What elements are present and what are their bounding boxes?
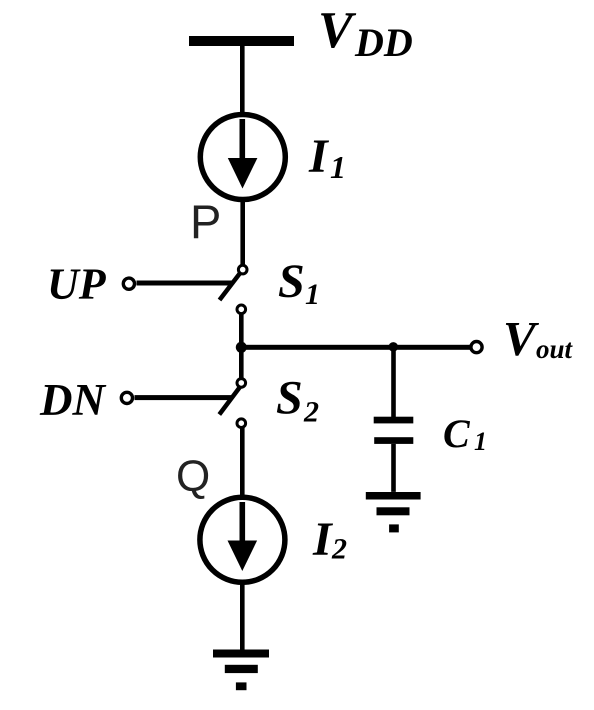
svg-text:Q: Q xyxy=(176,452,210,501)
ground (I2) xyxy=(213,650,269,691)
junction C1 tap xyxy=(389,342,399,352)
wire S2 to I2 xyxy=(240,428,245,496)
svg-text:2: 2 xyxy=(331,533,347,566)
svg-text:I: I xyxy=(312,513,334,566)
switch S1 xyxy=(220,265,248,313)
svg-text:V: V xyxy=(318,2,357,59)
junction node xyxy=(236,342,247,353)
svg-text:out: out xyxy=(536,334,574,364)
wire UP to S1 xyxy=(137,281,232,286)
svg-text:C: C xyxy=(443,411,471,456)
current source I1 xyxy=(200,115,285,200)
terminal Vout xyxy=(471,342,482,353)
svg-text:1: 1 xyxy=(330,149,346,185)
wire I1 to S1 xyxy=(240,199,245,266)
svg-text:S: S xyxy=(278,255,305,308)
svg-text:UP: UP xyxy=(47,260,107,309)
svg-text:P: P xyxy=(190,195,221,248)
svg-text:2: 2 xyxy=(303,396,319,429)
svg-text:DN: DN xyxy=(39,375,106,425)
wire DN to S2 xyxy=(135,395,232,400)
svg-text:S: S xyxy=(276,372,303,425)
capacitor C1 xyxy=(374,417,414,444)
svg-text:I: I xyxy=(308,130,330,183)
wire C1 tap down xyxy=(391,347,396,417)
svg-text:1: 1 xyxy=(305,278,320,311)
svg-text:DD: DD xyxy=(354,20,413,65)
current source I2 xyxy=(200,497,285,582)
svg-text:V: V xyxy=(503,311,540,366)
wire node to Vout xyxy=(241,345,470,350)
terminal DN xyxy=(121,392,132,403)
wire S1 to S2 xyxy=(239,314,244,379)
terminal UP xyxy=(123,278,134,289)
wire VDD to I1 xyxy=(240,46,245,115)
wire C1 to ground xyxy=(391,444,396,492)
wire I2 to ground xyxy=(240,582,245,650)
svg-text:1: 1 xyxy=(474,427,487,456)
ground (C1) xyxy=(366,492,421,532)
VDD rail xyxy=(189,36,294,46)
switch S2 xyxy=(219,379,245,428)
